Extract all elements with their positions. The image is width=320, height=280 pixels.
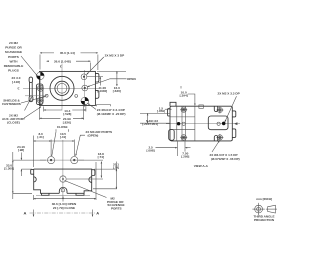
svg-text:[.4330]: [.4330] [97, 89, 107, 93]
svg-text:SCAVENGE: SCAVENGE [5, 50, 22, 54]
svg-text:[.216±.001]: [.216±.001] [142, 122, 158, 126]
svg-text:2X M2: 2X M2 [9, 41, 18, 45]
svg-text:(OPEN): (OPEN) [88, 133, 99, 137]
svg-text:WITH: WITH [10, 59, 19, 63]
svg-text:PURGE OR: PURGE OR [5, 46, 22, 50]
svg-text:26.6 [1.048]: 26.6 [1.048] [54, 60, 71, 64]
svg-text:[.118]: [.118] [12, 80, 20, 84]
svg-text:[.098]: [.098] [147, 149, 155, 153]
svg-text:[.31]: [.31] [37, 135, 43, 139]
svg-text:[.630]: [.630] [113, 89, 121, 93]
svg-text:[.41]: [.41] [60, 135, 66, 139]
svg-text:[.528]: [.528] [63, 112, 71, 116]
svg-text:[.394]: [.394] [180, 93, 188, 97]
svg-text:35.0 [1.14]: 35.0 [1.14] [60, 51, 75, 55]
svg-text:PORTS: PORTS [8, 55, 19, 59]
svg-text:(Ø.118/ØF X .20 DP): (Ø.118/ØF X .20 DP) [97, 112, 126, 116]
svg-text:[1.300]: [1.300] [4, 167, 14, 171]
svg-text:A: A [24, 211, 27, 216]
svg-text:[.74]: [.74] [98, 155, 104, 159]
svg-text:(CLOSE): (CLOSE) [7, 121, 20, 125]
svg-text:mm [INCH]: mm [INCH] [256, 197, 272, 201]
svg-text:2X M2 X 3.3 DP: 2X M2 X 3.3 DP [218, 92, 240, 96]
svg-text:OPEN: OPEN [127, 77, 137, 81]
svg-text:PROJECTION: PROJECTION [254, 218, 275, 222]
svg-text:[.98]: [.98] [18, 148, 24, 152]
svg-text:[.295]: [.295] [181, 155, 189, 159]
svg-text:PLUGS: PLUGS [8, 69, 19, 73]
svg-text:A: A [96, 211, 99, 216]
svg-text:FASTENERS: FASTENERS [2, 102, 21, 106]
svg-text:2X M2 X 3 DP: 2X M2 X 3 DP [105, 54, 125, 58]
svg-text:REMOVABLE: REMOVABLE [4, 64, 24, 68]
svg-text:[.826]: [.826] [63, 120, 71, 124]
svg-text:VIEW A-A: VIEW A-A [194, 164, 209, 168]
svg-text:PORTS: PORTS [111, 206, 122, 210]
svg-text:20 [.79] CLOSE: 20 [.79] CLOSE [53, 206, 75, 210]
svg-text:(Ø.070/SP X .06 DP): (Ø.070/SP X .06 DP) [211, 157, 240, 161]
svg-text:[.059]: [.059] [157, 109, 165, 113]
svg-text:CLOSE: CLOSE [57, 125, 68, 129]
